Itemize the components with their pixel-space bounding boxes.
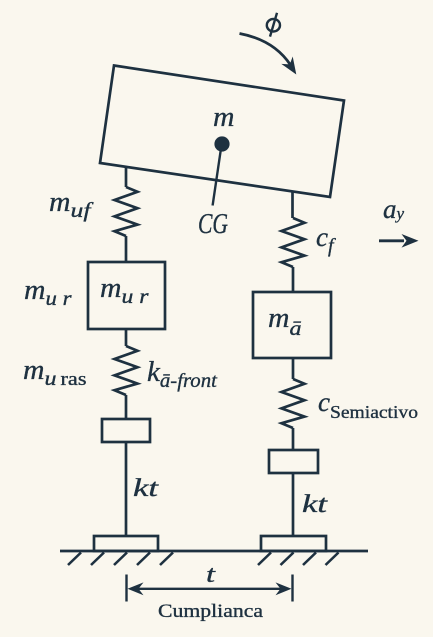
svg-text:kt: kt <box>133 475 159 502</box>
svg-text:CG: CG <box>198 208 228 240</box>
svg-text:kt: kt <box>302 491 328 518</box>
svg-text:m: m <box>213 101 235 133</box>
svg-text:Cumplianca: Cumplianca <box>158 602 263 622</box>
